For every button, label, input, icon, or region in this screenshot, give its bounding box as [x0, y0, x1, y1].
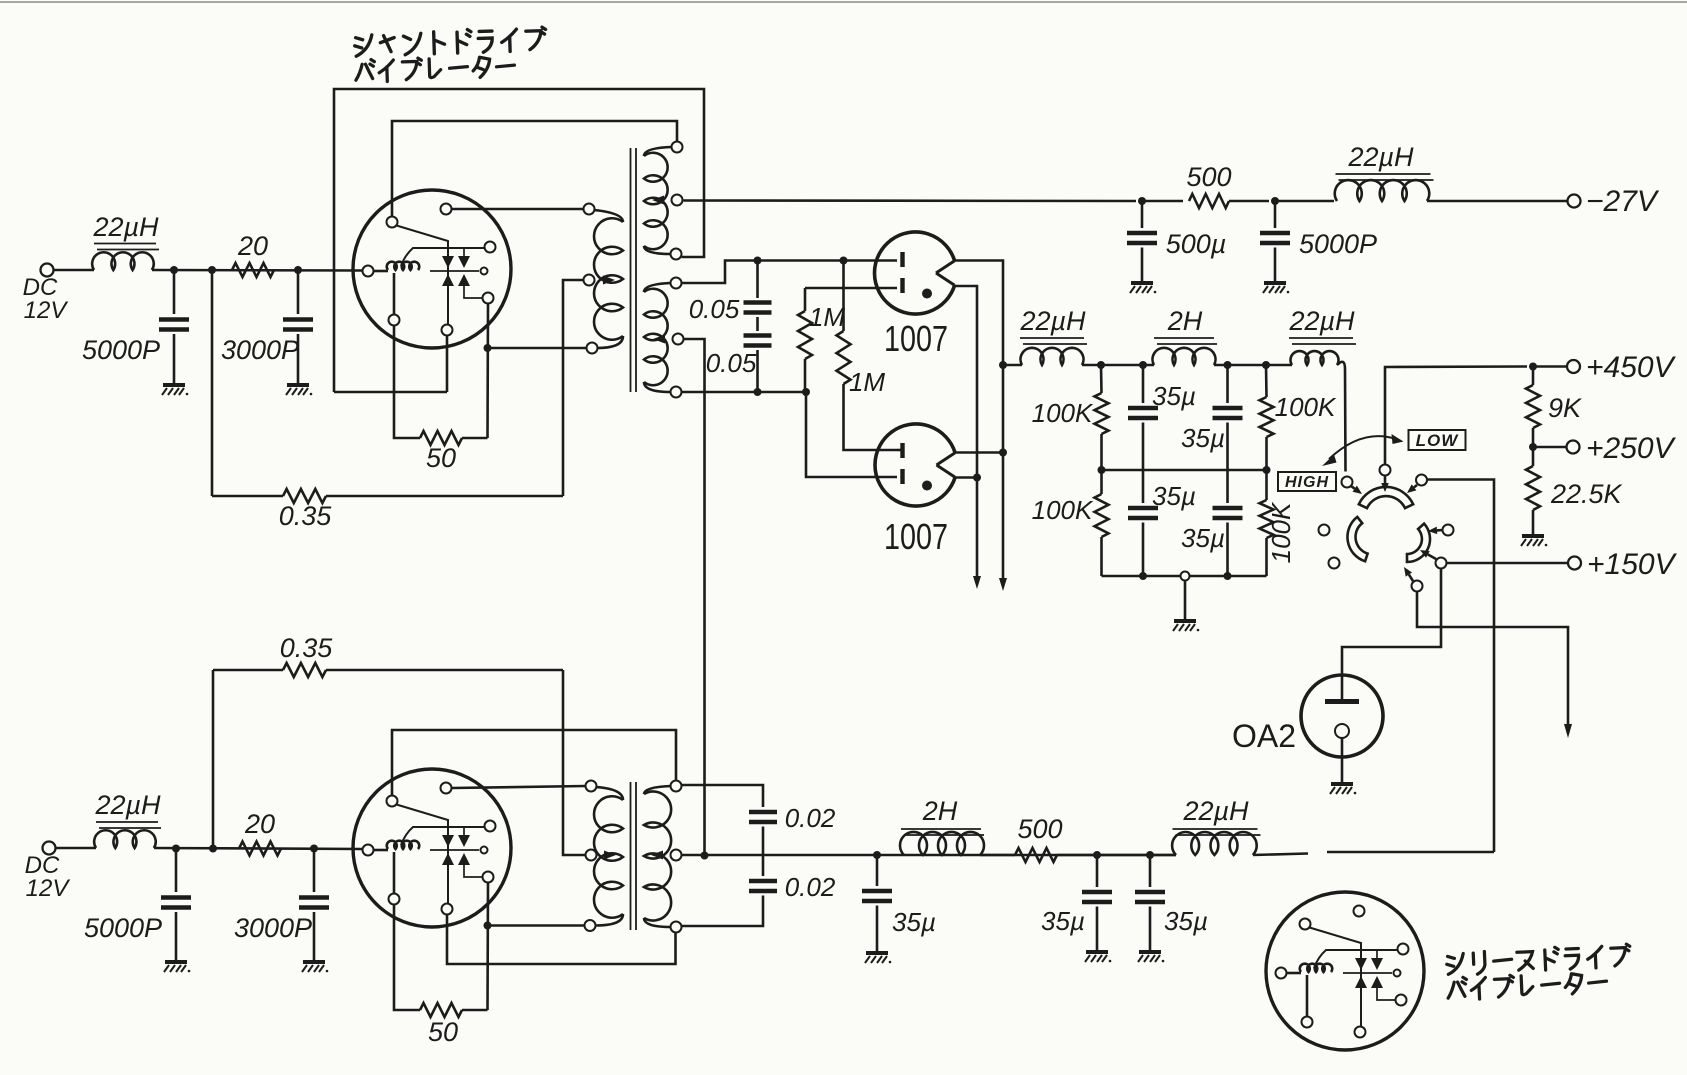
capacitor C14 0.02 — [749, 881, 777, 891]
wire — [462, 1009, 488, 1012]
label shunt-drive vibrator (katakana line 1) — [354, 27, 546, 56]
node junction T2 left bottom wire — [484, 922, 492, 930]
node input-C junction — [294, 266, 302, 274]
svg-text:0.02: 0.02 — [785, 803, 836, 833]
U3 anode bar — [1341, 676, 1344, 699]
svg-text:22µH: 22µH — [94, 790, 161, 820]
ground — [1130, 283, 1156, 293]
svg-text:0.05: 0.05 — [706, 348, 757, 378]
label box LOW — [1409, 430, 1466, 450]
capacitor C13 0.02 — [749, 812, 777, 822]
transformer T2 core — [630, 782, 632, 930]
pin T1 sec-upper tap with arrow — [672, 195, 683, 206]
vibrator V3 series-drive (spare, bottom-right) — [1266, 892, 1424, 1050]
svg-text:50: 50 — [428, 1017, 458, 1047]
node 9K top junction — [1529, 363, 1537, 371]
node input-A junction — [170, 266, 178, 274]
wire V2 top-left pin up to T2 — [392, 730, 676, 795]
svg-text:35µ: 35µ — [1152, 481, 1196, 511]
wire — [488, 347, 587, 350]
switch contact E — [1436, 558, 1447, 569]
wire — [1427, 200, 1567, 203]
node 35µ-1 top junction — [1139, 361, 1147, 369]
resistor R7 100K — [1100, 365, 1103, 393]
resistor R6 500 — [1189, 194, 1229, 208]
node mid bus right — [1263, 466, 1271, 474]
ground — [1330, 784, 1356, 794]
switch contact D — [1443, 525, 1454, 536]
wire bottom bus — [1102, 575, 1267, 578]
svg-text:0.35: 0.35 — [280, 633, 334, 663]
wire vibrator top-left pin to transformer — [392, 121, 677, 216]
pin T1 sec-lower bottom — [671, 387, 682, 398]
wire 0.35 to T2 left tap — [563, 670, 586, 855]
resistor R1 20 — [232, 263, 274, 277]
node binput-A junction — [172, 845, 180, 853]
pin T2 right bottom — [671, 922, 682, 933]
svg-text:20: 20 — [244, 809, 275, 839]
pin T1 sec-upper top — [672, 142, 683, 153]
pin T1 primary bottom — [587, 343, 598, 354]
capacitor C15 35µ — [876, 855, 879, 886]
svg-text:100K: 100K — [1275, 392, 1337, 422]
switch contact B — [1380, 465, 1391, 476]
arrow E to wiper — [1428, 554, 1436, 559]
wire — [980, 854, 1015, 857]
resistor R13 20 — [239, 842, 281, 856]
ground — [1521, 536, 1547, 546]
ground — [162, 385, 188, 395]
node junction to primary bottom — [484, 344, 492, 352]
svg-text:500: 500 — [1186, 162, 1231, 192]
node 35µ-6 junction — [1093, 851, 1101, 859]
label vibrator katakana line 2 (bottom) — [1447, 971, 1607, 1000]
svg-text:22µH: 22µH — [92, 212, 159, 242]
U3 cathode circle — [1335, 724, 1349, 738]
wire — [762, 827, 765, 877]
node bottom bus 35µ-4 — [1224, 572, 1232, 580]
inductor L5 22µH (HV filter out) — [1291, 351, 1339, 365]
wire — [54, 269, 95, 272]
svg-text:3000P: 3000P — [221, 335, 299, 365]
wire vibrator bottom-left pin down — [394, 326, 420, 439]
svg-text:35µ: 35µ — [1164, 906, 1208, 936]
wire tap to common rail down — [684, 339, 705, 856]
node mid bus left — [1098, 466, 1106, 474]
wire bottom output line — [682, 854, 1177, 857]
node 100K-2 top junction — [1262, 361, 1270, 369]
svg-text:22µH: 22µH — [1288, 306, 1355, 336]
wire — [682, 896, 764, 927]
wire — [152, 269, 363, 272]
arrow F to wiper — [1409, 575, 1413, 581]
arrow rail2 continuation (down) — [999, 578, 1007, 591]
wire U2 plate to rail — [954, 451, 1003, 454]
ground — [302, 962, 328, 972]
pin T2 left tap with arrow — [586, 850, 597, 861]
wire — [1327, 851, 1494, 854]
resistor R16 500 — [1015, 848, 1057, 862]
capacitor C6 5000P — [1260, 233, 1290, 243]
svg-text:50: 50 — [426, 443, 456, 473]
wire — [1229, 200, 1269, 203]
switch contact F — [1412, 581, 1423, 592]
capacitor C7 35µ — [1142, 365, 1145, 403]
node 35µ-7 junction — [1146, 851, 1154, 859]
resistor R15 50 (bottom buffer) — [420, 1003, 462, 1017]
pin T1 primary tap with arrow — [584, 275, 595, 286]
svg-text:22µH: 22µH — [1019, 306, 1086, 336]
ground — [1085, 952, 1111, 962]
svg-text:35µ: 35µ — [1041, 906, 1085, 936]
wire — [212, 670, 215, 849]
capacitor C10 35µ — [1226, 470, 1229, 503]
svg-text:500: 500 — [1017, 814, 1062, 844]
svg-text:35µ: 35µ — [1181, 523, 1225, 553]
svg-text:100K: 100K — [1032, 495, 1094, 525]
wire — [1274, 201, 1277, 228]
svg-text:OA2: OA2 — [1232, 718, 1296, 754]
svg-text:35µ: 35µ — [892, 907, 936, 937]
transformer T2 right winding — [644, 786, 671, 794]
capacitor C4 0.05 — [744, 336, 772, 346]
arrow D to wiper — [1437, 529, 1443, 532]
wire — [1533, 365, 1567, 368]
wire contact E to OA2 — [1342, 569, 1441, 675]
resistor R12 22.5K — [1532, 447, 1535, 466]
wire — [297, 270, 300, 314]
node bottom bus 35µ-3 — [1139, 572, 1147, 580]
transformer T1 secondary lower winding — [644, 283, 671, 292]
wire U2 cathode to rail2 — [954, 476, 977, 479]
arrow C to wiper — [1414, 485, 1417, 487]
terminal +450V — [1567, 360, 1580, 373]
node binput-B junction to 0.35 — [209, 845, 217, 853]
pin T1 sec-lower top — [671, 278, 682, 289]
wire — [313, 849, 316, 893]
transformer T1 secondary upper winding — [644, 147, 671, 156]
vibrator V2 series-drive (bottom-left) with pins — [353, 769, 511, 927]
pin T2 left bottom — [585, 920, 596, 931]
wire — [1253, 854, 1308, 856]
wire — [175, 912, 178, 961]
wire — [1141, 201, 1144, 228]
wire vibrator right-lower pin down — [486, 304, 489, 439]
node 100K-1 top junction — [1097, 361, 1105, 369]
tube U1 plate bars — [900, 252, 904, 293]
svg-text:2H: 2H — [922, 796, 958, 826]
svg-text:0.05: 0.05 — [689, 294, 740, 324]
svg-text:0.02: 0.02 — [785, 872, 836, 902]
label box HIGH — [1278, 472, 1336, 491]
wire sec-lower bottom line — [682, 391, 807, 394]
wire L5 to switch contact A — [1337, 362, 1346, 472]
wire — [173, 270, 176, 314]
wire — [756, 317, 759, 331]
terminal -27V — [1568, 195, 1581, 208]
wire feedback box left/top — [334, 89, 704, 392]
arrow B to wiper — [1384, 476, 1387, 484]
node rail to filter junction — [999, 361, 1007, 369]
node 35µ-5 junction — [873, 851, 881, 859]
svg-text:20: 20 — [237, 231, 268, 261]
node +250V junction — [1529, 443, 1537, 451]
capacitor C9 35µ — [1142, 470, 1145, 503]
node rail junction — [999, 449, 1007, 457]
inductor L8 22µH (bottom filter) — [1172, 832, 1257, 855]
pin T1 primary top — [584, 204, 595, 215]
node 5000P junction — [1271, 197, 1279, 205]
wire down to tube2 lower bar — [806, 392, 897, 477]
wire — [1274, 248, 1277, 283]
wire U1 cathode to rail2 — [954, 286, 977, 576]
tube U2 cathode dot — [922, 481, 932, 491]
pin T2 left top — [586, 781, 597, 792]
wire V2 bottom-left pin down — [394, 905, 420, 1011]
terminal DC 12V input (bottom) — [43, 842, 56, 855]
capacitor C1 5000P — [159, 320, 189, 330]
arrow continuation (down) — [1564, 724, 1572, 738]
inductor L6 22µH input choke (bottom) — [94, 830, 156, 848]
wire V2 top-right pin to T2 left top — [452, 786, 586, 788]
tube U2 1007 rectifier (lower) envelope — [875, 424, 955, 506]
pin T1 sec-lower tap with arrow — [673, 334, 684, 345]
terminal +150V — [1568, 557, 1581, 570]
svg-text:HIGH: HIGH — [1285, 474, 1329, 491]
wire 1M-1 top to tube1 lower bar — [805, 287, 897, 290]
wire — [1184, 581, 1187, 621]
svg-text:9K: 9K — [1548, 393, 1582, 423]
resistor R14 0.35 (bottom feedback) — [213, 669, 283, 672]
wire contact E to +150V — [1447, 562, 1567, 565]
svg-text:+150V: +150V — [1587, 548, 1678, 581]
label vibrator katakana line 2 — [355, 55, 515, 82]
wire contact C to HV return — [1427, 480, 1494, 853]
ground — [1263, 283, 1289, 293]
resistor R2 50 (top buffer) — [420, 431, 462, 445]
resistor R5 1M — [842, 261, 845, 332]
svg-text:5000P: 5000P — [84, 913, 162, 943]
svg-text:1007: 1007 — [884, 318, 948, 359]
resistor R11 9K — [1532, 367, 1535, 386]
wire — [1275, 200, 1334, 203]
wire U1 plate to +rail — [954, 261, 1003, 579]
wire — [1057, 854, 1176, 857]
inductor L7 2H (bottom filter) — [900, 832, 984, 855]
svg-text:3000P: 3000P — [234, 913, 312, 943]
wire — [1533, 446, 1566, 449]
node junction 0.05 chain top — [754, 257, 762, 265]
capacitor C2 3000P — [283, 320, 313, 330]
arrow HIGH-LOW curved — [1329, 436, 1396, 459]
node input-B junction to 0.35 feedback — [208, 266, 216, 274]
capacitor C3 0.05 — [756, 261, 759, 299]
label series-drive vibrator (katakana line 1) — [1446, 944, 1630, 976]
wire — [173, 334, 176, 384]
wire — [334, 391, 447, 394]
wire +450V from contact B — [1385, 367, 1527, 465]
wire — [313, 912, 316, 961]
wire V2 bottom-center pin to T2 right bottom — [447, 915, 676, 964]
node rail2 junction — [973, 474, 981, 482]
resistor R3 0.35 (top feedback) — [212, 495, 283, 498]
arrow A to wiper — [1351, 486, 1355, 489]
svg-text:+250V: +250V — [1586, 432, 1677, 465]
svg-text:LOW: LOW — [1416, 431, 1460, 450]
wire — [1341, 738, 1344, 783]
transformer T1 core — [630, 148, 632, 392]
inductor L4 2H — [1153, 348, 1216, 365]
wire — [154, 848, 363, 849]
wire sec-lower top to rectifier bus — [682, 261, 898, 284]
svg-text:12V: 12V — [26, 875, 71, 902]
wire — [1003, 364, 1022, 367]
svg-text:+450V: +450V — [1586, 351, 1677, 384]
node 35µ-2 top junction — [1224, 361, 1232, 369]
node junction 1M-2 top — [840, 257, 848, 265]
inductor L1 22µH input choke (top) — [92, 252, 154, 270]
switch contact G (spare) — [1319, 525, 1330, 536]
wire — [1142, 200, 1183, 203]
wire -27V line from T1 tap — [684, 199, 1137, 202]
svg-text:22µH: 22µH — [1347, 142, 1414, 172]
wire V2 right-lower pin down — [486, 883, 489, 1011]
wire T2 right top to 0.02 chain — [682, 785, 764, 807]
switch wiper arc (left) — [1347, 517, 1367, 561]
ground — [865, 953, 891, 963]
tube U2 plate bars — [900, 443, 904, 484]
tube U1 1007 rectifier (upper) envelope — [874, 232, 954, 314]
capacitor C12 3000P — [299, 898, 329, 908]
ground — [1138, 952, 1164, 962]
wire — [1082, 364, 1154, 367]
wire U2 upper bar lead — [897, 449, 901, 452]
svg-text:0.35: 0.35 — [279, 501, 333, 531]
wire — [446, 336, 449, 392]
resistor R9 100K — [1100, 470, 1103, 494]
transformer T1 primary winding — [594, 210, 623, 222]
wire — [1214, 364, 1292, 367]
svg-text:35µ: 35µ — [1152, 381, 1196, 411]
wire vibrator top-right pin to primary top — [452, 208, 584, 211]
pin bottom bus center — [1181, 572, 1190, 581]
switch wiper arc (right) — [1407, 524, 1430, 562]
wire — [1141, 248, 1144, 283]
resistor R4 1M — [804, 288, 807, 311]
svg-text:22.5K: 22.5K — [1550, 479, 1623, 509]
tube U1 cathode dot — [922, 289, 932, 299]
wire mid bus — [1102, 469, 1267, 472]
svg-text:100K: 100K — [1266, 501, 1296, 563]
svg-text:12V: 12V — [24, 297, 69, 324]
svg-text:500µ: 500µ — [1166, 229, 1227, 259]
capacitor C5 500µ — [1127, 233, 1157, 243]
svg-text:5000P: 5000P — [82, 335, 160, 365]
ground — [286, 385, 312, 395]
switch contact H (spare) — [1329, 558, 1340, 569]
inductor L2 22µH (-27V filter) — [1335, 180, 1429, 201]
wire primary tap to 0.35 riser — [563, 280, 584, 496]
wire — [175, 849, 178, 893]
node binput-C junction — [310, 845, 318, 853]
inductor L3 22µH (HV filter) — [1021, 348, 1084, 365]
wire — [297, 334, 300, 384]
svg-text:1007: 1007 — [884, 516, 948, 557]
node 500µ junction — [1138, 197, 1146, 205]
resistor R10 100K — [1265, 470, 1268, 500]
wire — [462, 437, 488, 440]
node common rail junction — [701, 852, 709, 860]
wire — [211, 270, 214, 496]
wire contact F down-right continuation — [1417, 592, 1568, 725]
capacitor C11 5000P — [161, 898, 191, 908]
tube U3 OA2 envelope — [1301, 675, 1383, 757]
wire — [56, 847, 97, 850]
transformer T2 left winding — [596, 787, 623, 800]
svg-text:5000P: 5000P — [1299, 229, 1377, 259]
terminal +250V — [1567, 441, 1580, 454]
svg-text:1M: 1M — [849, 367, 885, 397]
arrow rail continuation (down) — [973, 576, 981, 589]
capacitor C16 35µ — [1096, 855, 1099, 887]
switch wiper arc (top) — [1359, 487, 1413, 508]
ground — [1173, 621, 1199, 631]
svg-text:2H: 2H — [1167, 306, 1203, 336]
ground — [164, 962, 190, 972]
svg-text:100K: 100K — [1032, 398, 1094, 428]
node junction 0.05 chain bottom — [754, 388, 762, 396]
node junction 1M-1 bottom — [802, 388, 810, 396]
svg-text:35µ: 35µ — [1181, 423, 1225, 453]
switch contact C — [1416, 475, 1427, 486]
resistor R8 100K — [1265, 365, 1268, 397]
pin T1 sec-upper bottom — [671, 249, 682, 260]
vibrator V1 shunt-drive (top) with pins and contacts — [353, 190, 511, 348]
svg-text:−27V: −27V — [1586, 185, 1660, 218]
page top edge line — [0, 1, 1687, 3]
svg-text:22µH: 22µH — [1182, 796, 1249, 826]
pin T2 right top — [671, 781, 682, 792]
capacitor C17 35µ — [1149, 855, 1152, 887]
svg-text:1M: 1M — [809, 302, 845, 332]
wire — [488, 924, 585, 927]
pin T2 right tap with arrow — [671, 850, 682, 861]
terminal DC 12V input (top) — [41, 264, 54, 277]
capacitor C8 35µ — [1226, 365, 1229, 403]
switch contact A — [1342, 477, 1353, 488]
